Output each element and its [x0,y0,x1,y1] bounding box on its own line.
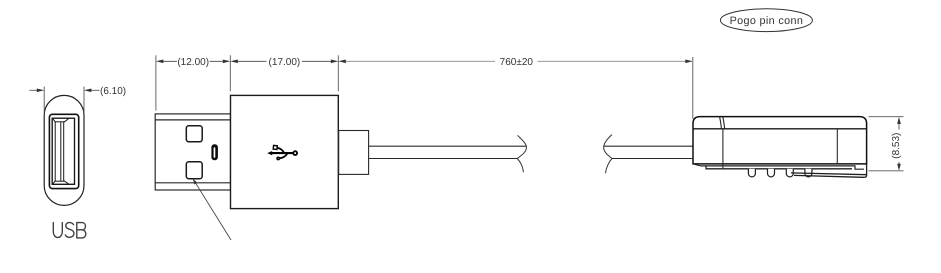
top dimension extension lines [156,55,693,119]
Pogo pin conn callout ellipse [720,9,812,32]
USB plug side view metal shell [155,114,230,190]
pogo connector seam [720,117,722,129]
cable left segment [369,146,527,158]
USB label [53,223,86,238]
USB front view outer stadium [44,95,84,205]
strain relief [339,131,369,175]
dimension 8.53 [869,117,904,171]
svg-text:(12.00): (12.00) [177,57,209,68]
shell upper hole [186,126,202,142]
dimension 17.00 [235,60,335,62]
svg-text:Pogo pin conn: Pogo pin conn [730,15,804,27]
overmold body [231,95,339,208]
dimension 12.00 [160,60,226,62]
cable break left [517,135,526,172]
svg-text:(6.10): (6.10) [100,86,126,97]
svg-text:(8.53): (8.53) [891,133,902,159]
svg-text:(17.00): (17.00) [269,57,301,68]
pogo connector inner vertical right [836,129,838,164]
pogo bottom wedge [791,164,867,177]
cable right segment [604,146,693,158]
svg-text:760±20: 760±20 [500,57,534,68]
USB front view shell rounded rect [49,114,78,188]
USB trident symbol [272,148,297,159]
USB front view opening rect [52,118,74,184]
pogo connector body [693,117,867,164]
USB front view tongue [53,119,69,184]
pogo connector shoulder line [693,128,866,130]
leader line from lower hole [193,179,231,240]
pogo connector inner vertical left [722,129,724,169]
pogo bottom plate [695,164,865,169]
dimension 6.10 [29,87,99,113]
pogo pins [748,169,812,177]
shell lower hole [186,162,202,179]
dimension 760±20 [343,60,689,62]
cable break right [604,135,612,174]
shell oval slot [211,144,218,160]
